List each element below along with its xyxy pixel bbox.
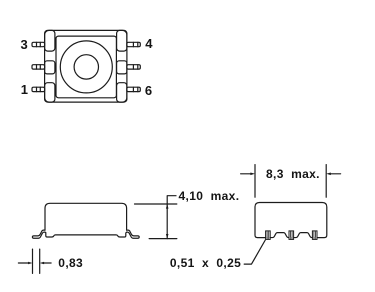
dimension 0,83: left extension line	[32, 249, 34, 273]
package body outline	[45, 30, 127, 102]
outer circle	[60, 41, 112, 93]
side view body outline	[45, 203, 127, 230]
svg-text:1: 1	[21, 82, 28, 97]
dimension 8,3 max.: right arrow	[331, 173, 341, 175]
end view recess between lead 2 and lead 3	[294, 233, 313, 238]
side view left gull-wing lead	[32, 230, 45, 238]
dimension 8,3 max.: right extension line	[325, 165, 327, 198]
dimension 8,3 max.: left extension line	[254, 165, 256, 198]
dimension 4,10 max.: top extension line	[135, 203, 177, 205]
lead-frame tab, left top (pin 3 pad)	[45, 30, 55, 51]
end view body outline	[255, 203, 327, 238]
dimension 4,10 max.: vertical dimension line with shoulder	[167, 196, 176, 239]
lead-frame tab, right top (pin 4 pad)	[117, 30, 127, 51]
dimension 8,3 max.: left arrow	[241, 173, 251, 175]
lead-frame tab, left bottom (pin 1 pad)	[45, 83, 55, 102]
lead-frame tab, right bottom (pin 6 pad)	[117, 83, 127, 102]
dimension 0,83: left arrow	[18, 262, 28, 264]
svg-text:0,51 x 0,25: 0,51 x 0,25	[170, 256, 241, 270]
dimension 4,10 max.: arrowhead up	[166, 204, 169, 209]
lead-frame tab, right middle (pin 5 pad)	[117, 61, 127, 74]
end view lead 1 (cut end)	[266, 231, 271, 240]
end view recess between lead 1 and lead 2	[270, 233, 289, 238]
dimension 4,10 max.: bottom extension line	[149, 238, 177, 240]
end view lead 3 (cut end)	[312, 231, 317, 240]
pin 1 lead (bottom left)	[32, 87, 45, 91]
svg-text:4,10 max.: 4,10 max.	[179, 189, 240, 203]
pin 5 lead (middle right)	[127, 65, 140, 69]
lead-frame tab, left middle (pin 2 pad)	[45, 61, 55, 74]
svg-text:3: 3	[20, 37, 27, 52]
inner circle	[74, 55, 98, 79]
svg-text:0,83: 0,83	[58, 256, 83, 270]
leader line for lead size callout	[244, 240, 265, 264]
end view lead 2 (cut end)	[289, 231, 294, 240]
pin 4 lead (top right)	[127, 42, 140, 46]
dimension 0,83: right arrow	[44, 262, 51, 264]
pin 6 lead (bottom right)	[127, 87, 140, 91]
side view bottom edge with stand-off tabs	[45, 232, 127, 237]
pin 3 lead (top left)	[32, 42, 45, 46]
dimension 4,10 max.: arrowhead down	[166, 234, 169, 239]
svg-text:8,3 max.: 8,3 max.	[266, 167, 320, 181]
svg-text:4: 4	[145, 36, 153, 51]
svg-text:6: 6	[145, 83, 152, 98]
pin 2 lead (middle left)	[32, 65, 45, 69]
inner square (sensor cavity)	[56, 36, 116, 98]
dimension 0,83: right extension line	[39, 249, 41, 273]
side view right gull-wing lead	[127, 230, 140, 238]
